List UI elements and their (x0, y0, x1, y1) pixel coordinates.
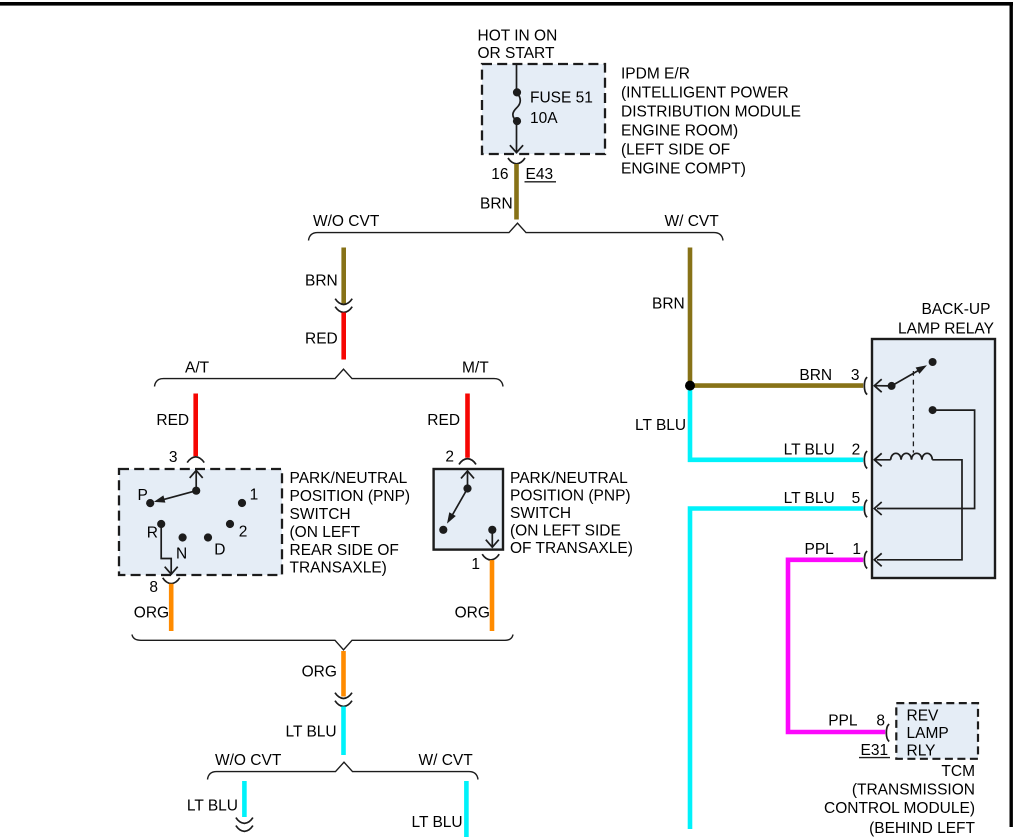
svg-text:LT BLU: LT BLU (784, 490, 835, 507)
svg-text:LT BLU: LT BLU (187, 797, 238, 814)
PNP M/T armature (439, 484, 471, 534)
label BACK-UP LAMP RELAY (898, 301, 994, 338)
svg-text:W/O CVT: W/O CVT (313, 213, 380, 230)
svg-text:LAMP RELAY: LAMP RELAY (898, 321, 994, 338)
svg-text:BACK-UP: BACK-UP (922, 301, 991, 318)
splice brace W/O CVT | W/ CVT (309, 223, 724, 240)
inline connector bottom-left (two cups, cut) (236, 818, 253, 832)
contact dot to pin 1 with arrow (486, 526, 499, 548)
svg-text:PARK/NEUTRAL: PARK/NEUTRAL (290, 470, 408, 487)
svg-text:SWITCH: SWITCH (510, 505, 571, 522)
label FUSE 51 / 10A (530, 90, 593, 128)
wire LT BLU bottom-left branch (242, 781, 247, 817)
svg-text:HOT IN ON: HOT IN ON (478, 28, 558, 45)
svg-text:A/T: A/T (185, 360, 210, 377)
TCM REV LAMP RLY box (dashed) (896, 703, 978, 759)
PNP switch M/T box (solid) (434, 469, 503, 550)
svg-text:(INTELLIGENT POWER: (INTELLIGENT POWER (621, 84, 789, 101)
label connector E43 (525, 166, 557, 183)
svg-text:RED: RED (427, 412, 460, 429)
relay switch armature (888, 358, 937, 390)
svg-text:ORG: ORG (455, 605, 490, 622)
relay coil return to pin 1 (877, 460, 962, 560)
fuse FUSE 51 10A symbol (510, 64, 523, 153)
svg-text:2: 2 (445, 449, 454, 466)
svg-text:DISTRIBUTION MODULE: DISTRIBUTION MODULE (621, 103, 801, 120)
svg-text:10A: 10A (530, 110, 558, 127)
PNP A/T internal: common arrow up (190, 470, 203, 490)
junction node (685, 381, 695, 391)
relay pin 1 arrow (874, 553, 881, 566)
svg-text:PPL: PPL (805, 541, 835, 558)
fuse box IPDM E/R (dashed) (482, 64, 605, 154)
wire ORG from pin 8 (169, 584, 174, 631)
svg-text:PPL: PPL (828, 712, 858, 729)
contact dot R (157, 520, 165, 528)
svg-text:ENGINE COMPT): ENGINE COMPT) (621, 161, 746, 178)
svg-text:PARK/NEUTRAL: PARK/NEUTRAL (510, 470, 628, 487)
svg-text:W/ CVT: W/ CVT (665, 213, 720, 230)
svg-text:8: 8 (149, 579, 158, 596)
svg-text:N: N (176, 545, 187, 562)
svg-text:LT BLU: LT BLU (635, 417, 686, 434)
svg-text:TCM: TCM (941, 763, 975, 780)
label HOT IN ON / OR START (478, 28, 558, 62)
svg-text:BRN: BRN (305, 273, 338, 290)
svg-text:(ON LEFT SIDE: (ON LEFT SIDE (510, 522, 621, 539)
inline connector ORG/LT BLU (two cups) (335, 693, 352, 707)
svg-text:E43: E43 (526, 166, 554, 183)
connector cup pin 1 (exit) (482, 554, 499, 560)
svg-text:TRANSAXLE): TRANSAXLE) (290, 560, 387, 577)
label IPDM E/R block (621, 65, 801, 177)
wire BRN to relay pin 3 (690, 383, 863, 388)
contact dot 1 (238, 499, 246, 507)
svg-text:(ON LEFT: (ON LEFT (290, 524, 361, 541)
connector ( at TCM (886, 724, 889, 741)
wire ORG from M/T pin 1 (490, 560, 495, 631)
svg-text:2: 2 (239, 524, 248, 541)
svg-text:D: D (214, 542, 225, 559)
svg-text:SWITCH: SWITCH (290, 506, 351, 523)
wire PPL from relay pin 1 (788, 560, 885, 732)
svg-text:E31: E31 (861, 742, 889, 759)
svg-text:ORG: ORG (134, 605, 169, 622)
wire BRN left branch (341, 248, 346, 304)
connector E43 pin 16 (cup under fuse box) (508, 158, 525, 164)
relay pin 2 arrow (874, 453, 890, 466)
merge brace ORG (A/T + M/T) (132, 635, 513, 650)
svg-text:5: 5 (852, 490, 861, 507)
relay pin 1 connector ( (864, 551, 867, 568)
relay coil (891, 453, 933, 460)
wire from R to pin 8 exit with arrow (161, 524, 178, 574)
wire RED A/T branch (193, 394, 198, 457)
svg-text:OR START: OR START (478, 45, 555, 62)
connector cup pin 3 (entry) (187, 457, 204, 463)
svg-text:LAMP: LAMP (907, 725, 949, 742)
svg-text:1: 1 (250, 486, 259, 503)
wire LT BLU pin 5 run and long drop (690, 509, 863, 830)
svg-text:R: R (147, 525, 158, 542)
relay pin 5 connector ( (864, 500, 867, 517)
svg-text:ENGINE ROOM): ENGINE ROOM) (621, 123, 738, 140)
svg-text:P: P (138, 487, 148, 504)
svg-text:CONTROL MODULE): CONTROL MODULE) (824, 800, 975, 817)
relay pin 3 arrow (874, 379, 891, 392)
svg-text:RED: RED (156, 412, 189, 429)
inline connector BRN/RED (two cups) (335, 299, 352, 313)
svg-text:1: 1 (471, 556, 480, 573)
svg-text:(BEHIND LEFT: (BEHIND LEFT (869, 820, 975, 837)
svg-text:M/T: M/T (462, 360, 489, 377)
svg-text:FUSE 51: FUSE 51 (530, 90, 593, 107)
relay mechanical link (dashed) (912, 371, 914, 453)
wire LT BLU center (341, 707, 346, 756)
svg-text:POSITION (PNP): POSITION (PNP) (290, 488, 411, 505)
svg-text:2: 2 (852, 442, 861, 459)
label connector E31 (859, 742, 890, 759)
svg-text:16: 16 (491, 166, 508, 183)
svg-text:BRN: BRN (480, 196, 513, 213)
svg-text:LT BLU: LT BLU (412, 814, 463, 831)
svg-text:1: 1 (852, 541, 861, 558)
PNP switch A/T box (dashed) (119, 469, 282, 575)
svg-text:OF TRANSAXLE): OF TRANSAXLE) (510, 540, 633, 557)
svg-text:W/ CVT: W/ CVT (419, 752, 474, 769)
svg-text:RED: RED (305, 331, 338, 348)
wire RED to A/T-M/T split (341, 313, 346, 360)
contact dot 2 (226, 520, 234, 528)
wire BRN right branch (W/ CVT) (688, 248, 693, 386)
svg-text:LT BLU: LT BLU (286, 724, 337, 741)
splice brace W/O CVT | W/ CVT (bottom) (208, 762, 479, 779)
svg-text:BRN: BRN (799, 367, 832, 384)
wire RED M/T branch (465, 394, 470, 458)
svg-text:BRN: BRN (652, 296, 685, 313)
svg-text:ORG: ORG (302, 664, 337, 681)
svg-text:(TRANSMISSION: (TRANSMISSION (852, 782, 975, 799)
label PARK/NEUTRAL POSITION (PNP) SWITCH M/T (510, 470, 633, 557)
svg-text:IPDM E/R: IPDM E/R (621, 65, 690, 82)
relay NO contact to pin 5 wire (877, 406, 975, 508)
splice brace A/T | M/T (155, 369, 504, 386)
connector cup pin 2 (entry) (459, 459, 476, 465)
svg-text:8: 8 (876, 712, 885, 729)
contact dot D (204, 533, 212, 541)
svg-text:REV: REV (907, 708, 940, 725)
relay pin 3 connector ( (864, 377, 867, 394)
svg-text:LT BLU: LT BLU (784, 442, 835, 459)
svg-text:RLY: RLY (907, 743, 936, 760)
svg-text:W/O CVT: W/O CVT (215, 752, 282, 769)
contact dot N (179, 533, 187, 541)
svg-text:(LEFT SIDE OF: (LEFT SIDE OF (621, 142, 730, 159)
wire LT BLU bottom-right branch (464, 781, 469, 837)
svg-text:3: 3 (851, 367, 860, 384)
PNP M/T internal: common arrow up (461, 471, 474, 489)
label TCM block (824, 763, 976, 837)
label PARK/NEUTRAL POSITION (PNP) SWITCH A/T (290, 470, 411, 577)
svg-text:3: 3 (169, 449, 178, 466)
svg-text:REAR SIDE OF: REAR SIDE OF (290, 542, 399, 559)
wire LT BLU junction down to relay pin 2 (690, 388, 863, 460)
relay pin 5 arrow (874, 502, 881, 515)
svg-text:POSITION (PNP): POSITION (PNP) (510, 487, 631, 504)
wire BRN from fuse to split (514, 164, 519, 220)
connector cup pin 8 (exit) (163, 578, 180, 584)
PNP A/T armature to P (146, 487, 200, 508)
wire ORG merged (341, 651, 346, 697)
relay pin 2 connector ( (864, 451, 867, 468)
relay BACK-UP LAMP RELAY box (872, 339, 995, 578)
label REV LAMP RLY (907, 708, 949, 760)
